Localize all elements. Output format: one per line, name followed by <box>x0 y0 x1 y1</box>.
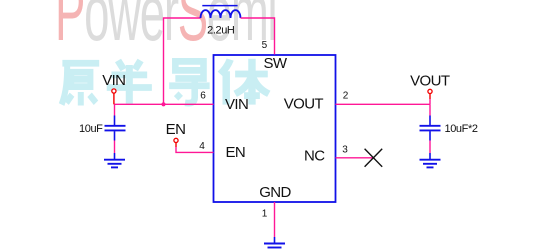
svg-text:VIN: VIN <box>225 96 248 113</box>
inductor L1 2.2uH <box>201 10 241 18</box>
ground GND2 <box>420 153 441 167</box>
wire: NC pin 3 stub <box>336 157 374 159</box>
svg-text:PowerSemi: PowerSemi <box>55 0 276 57</box>
wire: VOUT pin 2 to port <box>336 103 431 105</box>
svg-text:GND: GND <box>259 184 291 201</box>
svg-text:6: 6 <box>200 91 206 102</box>
watermark PowerSemi logo text <box>55 0 276 57</box>
svg-text:2: 2 <box>343 91 349 102</box>
wire: C1 to ground <box>114 141 116 154</box>
svg-text:5: 5 <box>262 40 268 51</box>
svg-text:SW: SW <box>264 55 288 72</box>
watermark Chinese char 3 (dao) <box>169 61 209 103</box>
watermark Chinese char 2 (ban) <box>107 61 152 105</box>
svg-text:2.2uH: 2.2uH <box>207 25 235 37</box>
wire: EN to pin 4 <box>176 147 214 152</box>
svg-text:VOUT: VOUT <box>410 73 450 90</box>
wire: VIN rail <box>114 103 214 105</box>
port VOUT terminal <box>428 89 432 93</box>
IC U1 body <box>214 55 336 202</box>
svg-text:10uF*2: 10uF*2 <box>445 123 478 135</box>
svg-text:EN: EN <box>166 121 186 138</box>
junction dot <box>161 102 165 106</box>
capacitor C2 10uF*2 <box>420 116 441 141</box>
svg-text:VOUT: VOUT <box>284 96 324 113</box>
ground GND3 <box>264 237 285 250</box>
wire: top loop left vertical (junction to inductor row) <box>164 18 201 104</box>
svg-text:EN: EN <box>226 144 246 161</box>
wire: GND pin 1 to ground <box>274 202 276 237</box>
svg-text:3: 3 <box>342 145 348 156</box>
svg-text:4: 4 <box>199 141 205 152</box>
wire: inductor to SW pin <box>241 18 275 55</box>
port VIN terminal <box>112 89 116 93</box>
capacitor C1 10uF <box>105 116 126 141</box>
port EN terminal <box>174 138 178 142</box>
no-connect X <box>365 149 383 167</box>
ground GND1 <box>104 153 125 167</box>
wire: VOUT to C2 <box>429 104 431 115</box>
svg-text:1: 1 <box>262 209 268 220</box>
wire: VIN to C1 <box>114 104 116 115</box>
svg-text:VIN: VIN <box>102 72 125 89</box>
wire: C2 to ground <box>429 141 431 154</box>
inductor core bar <box>202 5 237 7</box>
watermark Chinese char 4 (ti) <box>220 59 269 105</box>
watermark Chinese char 1 (yuan) <box>62 59 269 106</box>
svg-text:10uF: 10uF <box>79 123 103 135</box>
svg-text:NC: NC <box>304 148 325 165</box>
